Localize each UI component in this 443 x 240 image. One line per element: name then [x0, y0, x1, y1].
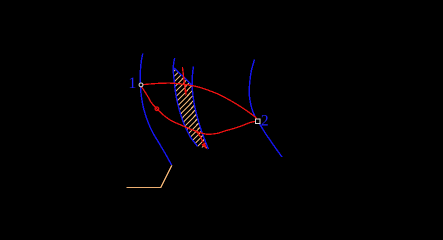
svg-text:1: 1 [128, 75, 136, 92]
svg-text:2: 2 [261, 113, 269, 130]
